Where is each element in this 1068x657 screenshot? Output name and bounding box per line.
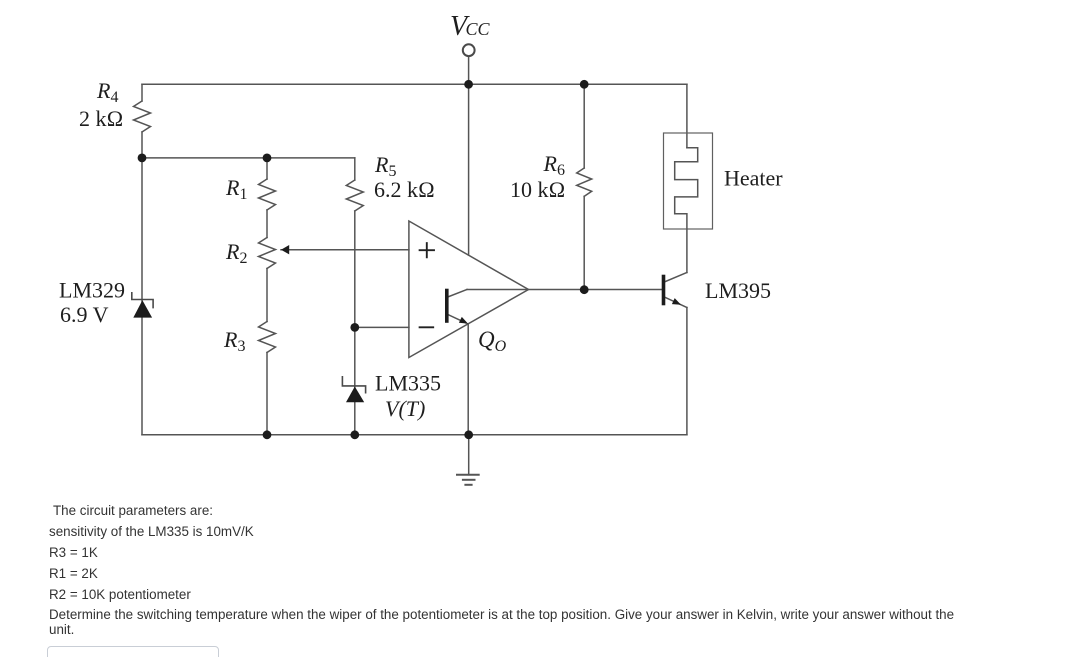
transistor Qo emitter arrowhead — [459, 317, 468, 324]
wire Vcc drop to op-amp — [468, 84, 470, 255]
svg-text:CC: CC — [466, 19, 491, 39]
wire R6 bottom lead — [583, 196, 585, 289]
junction node R1 top — [263, 154, 272, 163]
question text line 3 — [49, 545, 98, 560]
resistor R2 — [259, 238, 276, 269]
wire wiper to plus input — [281, 249, 409, 251]
wire R1 top lead — [266, 158, 268, 179]
transistor Qo emitter — [449, 315, 466, 323]
svg-text:R4: R4 — [96, 78, 118, 106]
wire R5 bottom lead — [354, 211, 356, 435]
wire LM395 emitter drop — [686, 308, 688, 435]
svg-text:R1: R1 — [225, 175, 247, 203]
question text line 4 — [49, 566, 98, 581]
wire left rail upper — [141, 84, 143, 101]
wire R1-R2 — [266, 210, 268, 238]
svg-text:LM329: LM329 — [59, 278, 125, 303]
transistor LM395 emitter arrowhead — [672, 298, 681, 305]
wire R3 bottom lead — [266, 353, 268, 435]
resistor R3 — [259, 322, 276, 353]
wire op-amp output — [467, 289, 662, 291]
svg-text:LM395: LM395 — [705, 278, 771, 303]
question text line 1 — [53, 503, 213, 518]
svg-text:LM335: LM335 — [375, 371, 441, 396]
question text line 5 — [49, 587, 191, 602]
wire heater drop — [686, 84, 688, 147]
transistor LM395 emitter diagonal — [666, 298, 687, 308]
heater box — [664, 133, 713, 229]
Vcc terminal circle — [463, 44, 475, 56]
transistor Qo collector — [449, 290, 467, 297]
svg-text:R5: R5 — [374, 152, 396, 180]
zener diode LM329 — [132, 293, 153, 318]
wire R5 top lead — [354, 158, 356, 180]
label plus input — [420, 243, 434, 257]
question text line 2 — [49, 524, 254, 539]
wire Vcc stub — [468, 56, 470, 84]
ground — [457, 475, 479, 485]
junction node LM335 bottom rail — [350, 430, 359, 439]
wiper arrowhead — [281, 245, 289, 254]
svg-text:V(T): V(T) — [385, 396, 425, 421]
wire Qo output drop — [467, 324, 469, 435]
svg-text:10 kΩ: 10 kΩ — [510, 177, 565, 202]
wire R2-R3 — [266, 269, 268, 322]
question text line 7 — [49, 622, 74, 637]
wire heater to LM395 collector — [686, 229, 688, 273]
resistor R4 — [134, 101, 151, 132]
resistor R1 — [259, 179, 276, 210]
transistor LM395 base bar — [662, 277, 666, 304]
junction node R6 top — [580, 80, 589, 89]
resistor R5 — [346, 180, 363, 211]
wire R6 top lead — [583, 84, 585, 168]
junction node Vcc rail — [464, 80, 473, 89]
wire left rail lower — [141, 132, 143, 435]
svg-text:2 kΩ: 2 kΩ — [79, 106, 123, 131]
op-amp U1 triangle — [409, 221, 529, 358]
svg-text:Heater: Heater — [724, 166, 783, 191]
svg-text:R6: R6 — [543, 151, 565, 179]
junction node ground rail — [464, 430, 473, 439]
junction node minus input — [350, 323, 359, 332]
wire top rail — [142, 83, 687, 85]
junction node R3 bottom rail — [263, 430, 272, 439]
svg-text:QO: QO — [478, 327, 507, 355]
svg-text:6.9 V: 6.9 V — [60, 302, 109, 327]
resistor R6 — [577, 168, 592, 196]
answer input box — [47, 646, 219, 657]
svg-text:6.2 kΩ: 6.2 kΩ — [374, 177, 435, 202]
svg-text:R2: R2 — [225, 239, 247, 267]
svg-text:R3: R3 — [223, 327, 245, 355]
junction node R6 bottom — [580, 285, 589, 294]
wire ground stub — [468, 435, 470, 475]
junction node R4 bottom — [138, 154, 147, 163]
wire mid rail — [142, 157, 355, 159]
wire minus input — [355, 326, 409, 328]
zener diode LM335 — [342, 377, 365, 402]
transistor Qo base bar — [445, 291, 449, 322]
heater element meander — [675, 148, 698, 229]
label minus input — [420, 326, 434, 328]
question text line 6 — [49, 607, 954, 622]
transistor LM395 collector diagonal — [666, 273, 687, 282]
wire bottom rail — [142, 434, 687, 436]
